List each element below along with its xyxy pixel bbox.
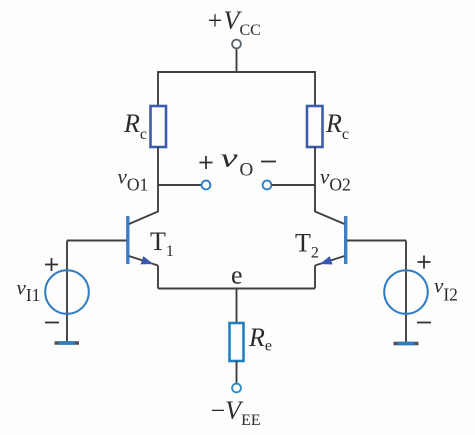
svg-text:T1: T1 [150,227,174,260]
wire output left [158,184,202,186]
svg-text:T2: T2 [295,229,319,262]
label minus vI2 [417,322,431,324]
svg-text:e: e [231,261,243,290]
ground right [394,342,419,345]
wire right input column [405,241,407,344]
wire right collector column [314,147,316,212]
svg-text:vO2: vO2 [320,165,351,195]
svg-text:+VCC: +VCC [206,6,261,39]
svg-text:−VEE: −VEE [211,396,261,429]
svg-text:O: O [240,160,254,181]
transistor T2 [315,212,346,266]
label plus vI1 [45,258,58,271]
wire base T2 [347,240,406,242]
svg-text:Re: Re [248,323,272,355]
ground left [55,341,80,344]
wire base T1 [67,240,127,242]
source vI1 [45,270,89,314]
label minus vI1 [45,322,59,324]
power terminal -VEE [232,384,241,393]
wire T2 emitter drop [314,266,316,289]
label plus sign output [200,156,213,169]
label plus vI2 [418,256,431,269]
wire top rail [158,72,315,106]
resistor Re [230,323,244,361]
wire left input column [66,241,68,344]
svg-text:v: v [221,144,239,173]
svg-text:vI1: vI1 [17,276,41,306]
wire left collector column [157,147,159,212]
svg-text:vI2: vI2 [434,274,458,305]
power terminal +VCC [232,40,241,49]
label minus sign output [261,161,276,163]
wire rail to Re [236,289,238,324]
resistor Rc left [151,106,167,147]
terminal vO minus [263,181,272,190]
terminal vO plus [202,181,211,190]
transistor T1 [128,212,158,266]
svg-text:Rc: Rc [325,109,349,143]
source vI2 [384,270,428,314]
wire Re to VEE [236,361,238,384]
wire bottom rail [158,288,315,290]
wire VCC stub [236,49,238,73]
svg-text:Rc: Rc [123,109,147,143]
resistor Rc right [307,106,323,147]
wire output right [271,184,315,186]
svg-text:vO1: vO1 [118,165,149,195]
wire T1 emitter drop [157,266,159,289]
